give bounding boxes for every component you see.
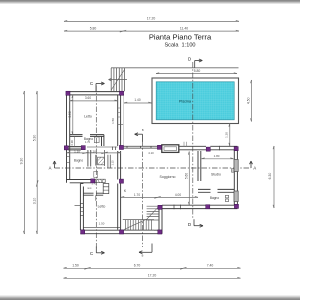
svg-text:Studio: Studio bbox=[211, 172, 221, 176]
interior stairs L-shaped bbox=[123, 206, 159, 230]
column markers (pilastri) bbox=[64, 91, 238, 234]
pool-to-wall dimension 1.20 bbox=[228, 124, 231, 147]
svg-text:3.60: 3.60 bbox=[85, 96, 91, 100]
svg-text:11.40: 11.40 bbox=[180, 26, 188, 30]
dimension 1.10 bbox=[67, 152, 122, 154]
svg-text:Letto: Letto bbox=[84, 114, 92, 118]
bagno2 divider wall bbox=[88, 150, 91, 167]
svg-text:1.70: 1.70 bbox=[134, 193, 140, 197]
dimension soggiorno height 5.60 bbox=[187, 152, 190, 206]
studio door mark bbox=[232, 169, 234, 173]
right wing dimension 6.30 bbox=[272, 146, 275, 208]
pool dimension 5.80 bbox=[156, 73, 237, 75]
dimension bagno1 height 0.90 bbox=[73, 136, 75, 146]
lower-left window sill bbox=[75, 204, 81, 206]
svg-text:Soggiorno: Soggiorno bbox=[160, 175, 176, 179]
dimension 1.40 walkway bbox=[124, 101, 152, 104]
svg-text:3.10: 3.10 bbox=[32, 198, 36, 205]
svg-text:17.20: 17.20 bbox=[147, 17, 156, 21]
pool deck outline bbox=[152, 78, 239, 124]
svg-text:w.c.: w.c. bbox=[87, 187, 92, 190]
window ticks on pool-facing wall bbox=[118, 108, 124, 124]
long wall y147 slider window bbox=[124, 146, 158, 148]
svg-text:Bagno: Bagno bbox=[74, 159, 83, 163]
page top edge bbox=[0, 0, 300, 1]
terrace top edge line bbox=[111, 67, 239, 69]
svg-text:Piscina: Piscina bbox=[179, 100, 192, 104]
svg-text:1.50: 1.50 bbox=[111, 118, 115, 124]
column P5 mid wall bbox=[119, 145, 123, 149]
right wall french window 1 bbox=[234, 160, 238, 172]
wall divider Bagno1 right bbox=[102, 135, 104, 146]
svg-text:1.80: 1.80 bbox=[214, 154, 220, 158]
svg-text:1.15: 1.15 bbox=[111, 160, 115, 166]
svg-text:5.80: 5.80 bbox=[194, 69, 201, 73]
svg-text:1.10: 1.10 bbox=[74, 149, 80, 153]
svg-text:Bagno: Bagno bbox=[84, 137, 93, 141]
column P11 bottom wall left bbox=[81, 230, 85, 234]
wall y181 threshold bbox=[95, 179, 105, 182]
column P8 mid wall right corner bbox=[234, 147, 238, 151]
svg-text:Scala 1:100: Scala 1:100 bbox=[164, 43, 195, 49]
svg-text:B: B bbox=[142, 253, 144, 257]
svg-text:4.50: 4.50 bbox=[246, 97, 250, 104]
svg-text:1.50: 1.50 bbox=[99, 222, 105, 226]
bottom dimension line 1.50/6.70/7.40 bbox=[64, 267, 241, 278]
wc closet shelf bbox=[103, 184, 109, 194]
column P1 top-left corner bbox=[66, 91, 70, 95]
svg-text:17.20: 17.20 bbox=[148, 274, 157, 278]
bagno3 fixtures bbox=[226, 195, 229, 201]
svg-text:6.30: 6.30 bbox=[268, 173, 272, 180]
svg-text:4.00: 4.00 bbox=[175, 193, 181, 197]
column P12 bottom wall bbox=[120, 230, 124, 234]
window end ticks above wall bbox=[184, 142, 186, 147]
column P7 mid wall bbox=[206, 147, 210, 151]
wall facing pool x118 bbox=[118, 95, 121, 146]
long wall y147 right segment a bbox=[180, 146, 207, 150]
pool water Piscina bbox=[156, 82, 234, 120]
bagno2 window ticks bbox=[67, 157, 70, 163]
column P10 hall wall bbox=[119, 179, 123, 183]
top dimension line 17.20 bbox=[64, 20, 239, 22]
long wall y147 right segment b bbox=[210, 146, 237, 150]
wall y181 left bbox=[67, 180, 91, 183]
svg-text:5.80: 5.80 bbox=[90, 26, 97, 30]
column P9 hall wall bbox=[91, 179, 95, 183]
section C line bbox=[95, 86, 97, 248]
column P13 bottom wall stair corner bbox=[158, 230, 162, 234]
dimension letto1 height bbox=[71, 95, 74, 135]
svg-text:6.70: 6.70 bbox=[134, 264, 141, 268]
svg-text:1.20: 1.20 bbox=[90, 149, 96, 153]
svg-text:A: A bbox=[253, 166, 256, 171]
svg-text:5.30: 5.30 bbox=[32, 135, 36, 142]
svg-text:3.50: 3.50 bbox=[68, 111, 72, 117]
section A marker right bbox=[250, 161, 253, 168]
big window in wall y147 bbox=[162, 145, 179, 153]
column P6 mid wall bbox=[157, 145, 161, 149]
dimension letto1 width bbox=[70, 99, 118, 102]
pool right dimension 4.50 bbox=[250, 80, 253, 122]
right outer wall bbox=[234, 150, 237, 205]
svg-text:A: A bbox=[49, 166, 52, 171]
svg-text:Letto: Letto bbox=[98, 204, 106, 208]
column P16 bottom-right corner bbox=[234, 204, 238, 208]
svg-text:1.20: 1.20 bbox=[225, 132, 229, 138]
page bottom edge bbox=[0, 299, 300, 300]
left dimension line 5.30/3.10 bbox=[36, 91, 38, 234]
top dimension line 5.80 / 11.40 bbox=[64, 30, 239, 32]
lower-left wing left wall bbox=[80, 184, 83, 231]
column P3 mid wall left bbox=[64, 146, 68, 150]
svg-text:1.70: 1.70 bbox=[85, 140, 91, 144]
svg-text:7.40: 7.40 bbox=[207, 264, 214, 268]
column P2 top wall right bbox=[120, 91, 124, 95]
wc room walls bbox=[83, 193, 93, 195]
wall top of Letto1 bbox=[67, 92, 125, 95]
bagno2 shaft hatched bbox=[94, 150, 111, 177]
exterior stairs top bbox=[109, 68, 128, 91]
column P14 stair top corner bbox=[158, 205, 162, 209]
right wall french window 2 bbox=[234, 191, 238, 202]
section D line bbox=[192, 62, 194, 220]
long wall y147 door strip bbox=[87, 146, 118, 148]
long wall y147 window left bbox=[68, 147, 81, 150]
studio/bagno divider bbox=[198, 189, 211, 192]
section A marker left bbox=[53, 161, 56, 168]
svg-text:5.60: 5.60 bbox=[184, 173, 188, 179]
svg-text:B: B bbox=[142, 128, 144, 132]
walls bbox=[67, 92, 238, 234]
stairwell right wall bbox=[159, 205, 162, 234]
svg-text:4.10: 4.10 bbox=[148, 151, 154, 155]
bottom wall lower-left wing bbox=[83, 226, 120, 228]
bagno1 shower bbox=[94, 137, 99, 143]
svg-text:Bagno: Bagno bbox=[210, 196, 219, 200]
section B marker bottom (left arrow) bbox=[139, 244, 152, 254]
wall divider Letto1/Bagno1 bbox=[70, 135, 83, 137]
left dimension line 9.30 bbox=[24, 91, 39, 234]
svg-text:Pianta Piano Terra: Pianta Piano Terra bbox=[149, 33, 212, 42]
dimension soggiorno 1.70/4.00 bbox=[121, 197, 198, 199]
section B top marker (left arrow) bbox=[135, 133, 143, 142]
column P4 mid wall bbox=[81, 146, 85, 150]
svg-text:9.30: 9.30 bbox=[20, 158, 24, 165]
soggiorno/studio divider bbox=[198, 151, 201, 181]
section B line bbox=[142, 141, 144, 247]
dimension studio 1.80 bbox=[202, 157, 234, 160]
right wing bottom wall bbox=[162, 205, 237, 208]
svg-text:1.40: 1.40 bbox=[134, 98, 140, 102]
bottom dimension line 17.20 bbox=[64, 277, 241, 279]
wall left outer upper bbox=[67, 92, 70, 183]
column P15 right wing bottom bbox=[206, 205, 210, 209]
svg-text:0.90: 0.90 bbox=[70, 140, 74, 146]
section A line bbox=[55, 167, 252, 169]
svg-text:1.50: 1.50 bbox=[72, 264, 79, 268]
